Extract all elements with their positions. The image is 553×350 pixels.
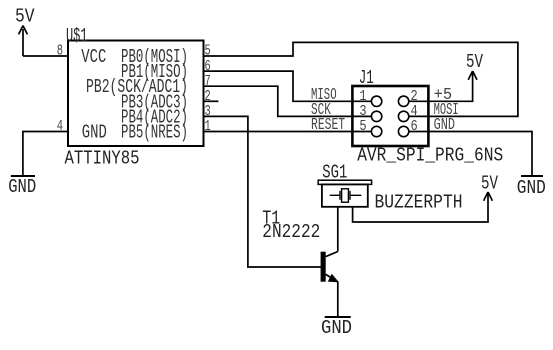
- label 5V (near SG1): [481, 173, 498, 195]
- svg-text:GND: GND: [82, 122, 107, 144]
- svg-text:BUZZERPTH: BUZZERPTH: [375, 192, 463, 214]
- wire U$1 pin 6 PB1/MISO to J1 pin 1: [204, 71, 353, 101]
- pin name GND: [82, 122, 107, 144]
- J1 pin 1 pad: [352, 96, 381, 106]
- pin name PB3(ADC3): [121, 91, 188, 113]
- label SG1: [322, 162, 347, 184]
- ground symbol GND (right): [521, 175, 543, 177]
- svg-text:5V: 5V: [481, 173, 498, 195]
- label U$1: [66, 25, 88, 47]
- svg-text:GND: GND: [517, 177, 546, 199]
- svg-text:GND: GND: [8, 176, 36, 198]
- connector J1 body: [352, 86, 428, 146]
- transistor T1 emitter with arrow: [326, 274, 338, 316]
- J1 pin number 1: [359, 88, 366, 105]
- pin name PB1(MISO): [121, 61, 188, 83]
- J1 pin 5 pad: [352, 126, 381, 136]
- label AVR_SPI_PRG_6NS: [357, 145, 503, 167]
- label BUZZERPTH: [375, 192, 463, 214]
- pin name PB4(ADC2): [121, 106, 188, 128]
- ground symbol GND (under T1): [325, 316, 351, 318]
- J1 pin number 3: [359, 103, 366, 120]
- pin number 4: [57, 118, 63, 135]
- pin name PB2(SCK/ADC1): [86, 76, 188, 98]
- buzzer SG1 flange: [318, 180, 371, 184]
- J1 pin number 6: [411, 118, 418, 135]
- wire U$1 pin 7 PB2/SCK to J1 pin 3: [204, 86, 353, 116]
- pin number 6: [205, 58, 211, 75]
- svg-text:2N2222: 2N2222: [262, 221, 320, 243]
- buzzer SG1 piezo element: [330, 189, 362, 202]
- J1 pin number 5: [359, 118, 366, 135]
- wire U$1 pin 5 PB0/MOSI to J1 pin 4: [204, 42, 518, 116]
- J1 pin number 2: [411, 88, 418, 105]
- svg-text:GND: GND: [321, 317, 352, 339]
- svg-text:VCC: VCC: [81, 46, 106, 68]
- wire J1 pin 2 +5 to 5V supply: [428, 74, 472, 101]
- pin number 3: [205, 103, 211, 120]
- label T1: [262, 207, 280, 229]
- label GND (right): [517, 177, 546, 199]
- net label MOSI: [434, 100, 459, 119]
- wire J1 pin 6 GND to ground: [428, 132, 532, 176]
- power supply 5V (near J1): [468, 71, 477, 80]
- pin name VCC: [81, 46, 106, 68]
- J1 pin 4 pad: [398, 111, 428, 121]
- svg-text:5V: 5V: [466, 51, 483, 73]
- wire 5V to U$1 pin 8: [23, 55, 68, 57]
- transistor T1 collector: [326, 252, 338, 257]
- svg-text:J1: J1: [359, 67, 374, 89]
- svg-text:AVR_SPI_PRG_6NS: AVR_SPI_PRG_6NS: [357, 145, 503, 167]
- wire U$1 pin 4 to ground: [23, 132, 68, 176]
- wire stub U$1 pin 2 PB3 (unconnected): [204, 100, 219, 102]
- label 5V (near J1): [466, 51, 483, 73]
- net label +5: [434, 85, 453, 104]
- buzzer SG1 body: [322, 184, 368, 206]
- J1 pin 2 pad: [398, 96, 428, 106]
- pin number 1: [205, 118, 211, 135]
- wire U$1 pin 1 PB5/NRES to J1 pin 5: [204, 131, 353, 133]
- J1 pin number 4: [411, 103, 418, 120]
- pin number 5: [205, 43, 211, 60]
- net label RESET: [311, 115, 345, 134]
- label GND (left): [8, 176, 36, 198]
- svg-text:6: 6: [411, 118, 418, 135]
- label GND (under T1): [321, 317, 352, 339]
- svg-text:SG1: SG1: [322, 162, 347, 184]
- label ATTINY85: [65, 147, 140, 169]
- pin name PB5(NRES): [121, 122, 188, 144]
- pin name PB0(MOSI): [121, 46, 188, 68]
- svg-text:5V: 5V: [15, 5, 35, 27]
- net label SCK: [311, 100, 331, 119]
- pin number 7: [205, 73, 211, 90]
- svg-text:PB5(NRES): PB5(NRES): [121, 122, 188, 144]
- wire U$1 pin 3 PB4 to transistor T1 base: [204, 116, 321, 267]
- power supply 5V (top-left): [19, 26, 28, 56]
- pin number 2: [205, 88, 211, 105]
- power supply 5V (near SG1): [484, 192, 493, 201]
- IC U$1 ATTINY85 body: [68, 41, 204, 147]
- svg-text:8: 8: [57, 43, 63, 60]
- wire SG1 pin 1 to T1 collector: [337, 207, 339, 252]
- svg-text:ATTINY85: ATTINY85: [65, 147, 140, 169]
- label 2N2222: [262, 221, 320, 243]
- net label GND (J1 pin 6): [434, 115, 455, 134]
- transistor T1 base bar: [321, 252, 326, 282]
- svg-text:4: 4: [57, 118, 63, 135]
- ground symbol GND (left): [11, 175, 35, 177]
- label 5V (top-left): [15, 5, 35, 27]
- pin number 8: [57, 43, 63, 60]
- net label MISO: [311, 85, 337, 104]
- J1 pin 6 pad: [398, 126, 428, 136]
- svg-text:RESET: RESET: [311, 115, 345, 134]
- svg-text:5: 5: [359, 118, 366, 135]
- J1 pin 3 pad: [352, 111, 381, 121]
- svg-text:1: 1: [205, 118, 211, 135]
- label J1: [359, 67, 374, 89]
- wire SG1 pin 2 to 5V supply: [353, 195, 488, 222]
- svg-text:U$1: U$1: [66, 25, 88, 47]
